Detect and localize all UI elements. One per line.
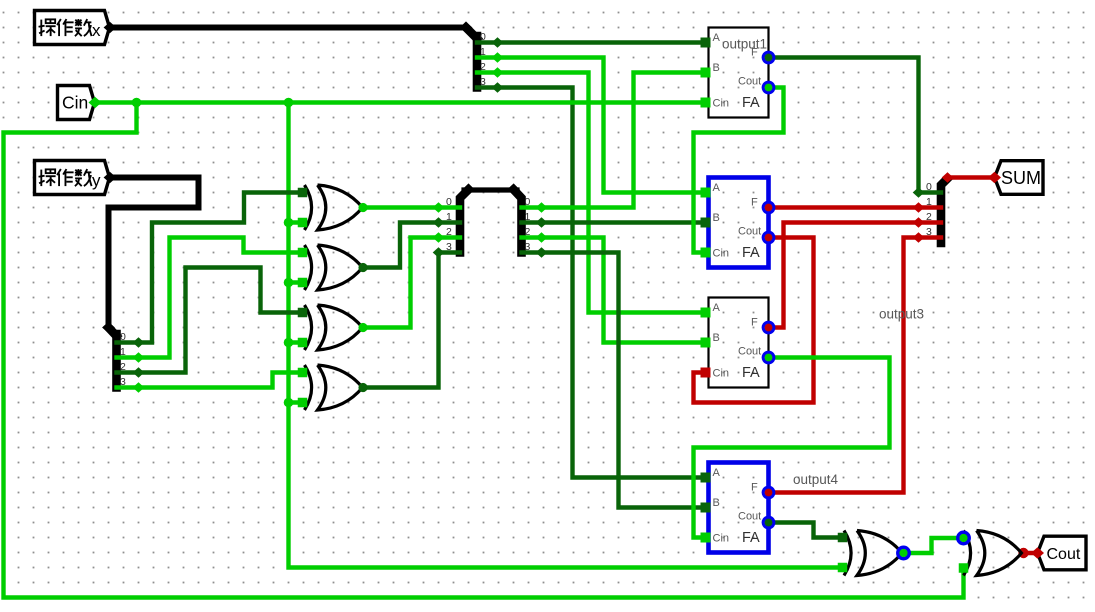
label Cout <box>738 511 761 523</box>
xor gate U2 <box>305 245 363 290</box>
wire y-bus from 操作数y <box>109 178 199 328</box>
label SP1 pin 0 <box>480 31 486 43</box>
label F <box>751 47 758 59</box>
label output4 <box>793 472 839 487</box>
wire y bit1 to xor2 A <box>117 238 301 358</box>
node U2 output <box>358 263 367 272</box>
label A <box>713 467 721 479</box>
pin FA3 Cin <box>701 368 711 378</box>
svg-text:A: A <box>713 32 721 44</box>
label SP4 pin 2 <box>525 226 531 238</box>
svg-text:x: x <box>92 21 101 40</box>
label SUM pin <box>1001 168 1041 188</box>
node SUM pin tip <box>988 172 1001 184</box>
wire yx bit1 to FA2 B <box>522 220 702 224</box>
label F <box>751 197 758 209</box>
wire FA4 Cout to orgate U5 <box>769 523 841 538</box>
node bridge left origin <box>462 184 475 195</box>
node SP4 branch1 <box>536 217 548 227</box>
pin FA4 Cout <box>763 517 774 528</box>
node SP3 branch3 <box>433 247 445 257</box>
junction xor1 B <box>284 218 294 228</box>
svg-text:B: B <box>713 497 720 509</box>
node SP1 branch2 <box>492 67 504 77</box>
svg-text:Cout: Cout <box>1047 546 1081 563</box>
splitter SP5 spine <box>941 179 948 244</box>
label 操 of pin x <box>39 19 56 36</box>
xor gate U1 <box>305 185 363 230</box>
svg-text:A: A <box>713 302 721 314</box>
pin U1 A <box>298 188 308 198</box>
subcircuit FA2 <box>709 178 769 268</box>
node SP5 branch1 <box>913 202 925 212</box>
label B <box>713 212 720 224</box>
svg-text:2: 2 <box>480 61 486 73</box>
svg-text:2: 2 <box>446 226 452 238</box>
svg-text:F: F <box>751 482 758 494</box>
svg-text:A: A <box>713 182 721 194</box>
node y-bus at splitter origin <box>102 322 115 333</box>
pin FA1 Cin <box>701 98 711 108</box>
node SP2 branch0 <box>133 337 145 347</box>
svg-text:1: 1 <box>525 211 531 223</box>
node SP4 branch2 <box>536 232 548 242</box>
svg-text:1: 1 <box>446 211 452 223</box>
node y-bus at pin tip <box>104 172 117 183</box>
svg-text:Cin: Cin <box>62 93 88 113</box>
wire FA2 F to SUM b1 <box>769 205 942 209</box>
node SP2 branch1 <box>133 352 145 362</box>
label SP1 pin 2 <box>480 61 486 73</box>
label SP3 pin 1 <box>446 211 452 223</box>
svg-text:Cin: Cin <box>713 98 730 110</box>
wire FA3 F to SUM b2 <box>769 223 942 328</box>
pin U6 A port <box>958 532 969 543</box>
pin FA3 F <box>763 322 774 333</box>
svg-text:B: B <box>713 212 720 224</box>
input pin 操作数y <box>35 161 110 195</box>
svg-text:2: 2 <box>525 226 531 238</box>
wire xor2 out to SP3 b1 <box>363 223 461 268</box>
svg-text:Cout: Cout <box>738 346 761 358</box>
wire Cin xor column <box>289 103 841 568</box>
svg-text:output4: output4 <box>793 472 839 487</box>
junction xor2 B <box>284 278 294 288</box>
svg-text:3: 3 <box>525 241 531 253</box>
label SP4 pin 0 <box>525 196 531 208</box>
node U6 output <box>1018 548 1028 558</box>
wire stub xor2 B <box>289 280 301 284</box>
pin FA2 F <box>763 202 774 213</box>
svg-text:1: 1 <box>480 46 486 58</box>
label Cout <box>738 346 761 358</box>
label SP5 pin 0 <box>926 181 932 193</box>
svg-text:y: y <box>92 171 101 190</box>
svg-text:Cin: Cin <box>713 368 730 380</box>
svg-text:A: A <box>713 467 721 479</box>
node Cin pin tip <box>89 97 102 109</box>
pin U5 A <box>838 533 848 543</box>
subcircuit FA3 output3 <box>709 298 769 388</box>
svg-text:Cout: Cout <box>738 76 761 88</box>
subcircuit FA4 output4 <box>709 463 769 553</box>
pin U1 B <box>298 218 308 228</box>
pin FA1 Cout <box>763 82 774 93</box>
node bridge right origin <box>507 184 520 195</box>
label output3 <box>879 307 924 322</box>
label 作 of pin x <box>57 19 74 36</box>
node SP3 branch2 <box>433 232 445 242</box>
wire xor-bus bridge <box>464 187 517 192</box>
xor gate U3 <box>305 305 363 350</box>
node x-bus at splitter origin <box>460 22 473 33</box>
pin FA3 Cout <box>763 352 774 363</box>
svg-text:1: 1 <box>120 346 126 358</box>
junction Cin left branch <box>132 98 142 108</box>
label Cin <box>713 368 730 380</box>
label FA <box>742 530 760 546</box>
label output1 <box>722 37 767 52</box>
node Cout pin tip <box>1031 547 1044 559</box>
wire orgate U5 out to xorgate U6 <box>904 538 958 553</box>
label SP1 pin 3 <box>480 76 486 88</box>
label SP3 pin 2 <box>446 226 452 238</box>
wire FA2 Cout to FA3 Cin <box>694 238 814 403</box>
splitter SP2 spine <box>112 334 121 388</box>
node SP2 branch3 <box>133 382 145 392</box>
splitter SP1 spine <box>473 36 482 88</box>
label SP4 pin 3 <box>525 241 531 253</box>
svg-text:FA: FA <box>742 245 760 261</box>
label B <box>713 332 720 344</box>
label F <box>751 317 758 329</box>
svg-text:FA: FA <box>742 530 760 546</box>
input pin 操作数x <box>35 11 110 45</box>
wire xor1 out to SP3 b0 <box>363 205 461 209</box>
svg-text:Cout: Cout <box>738 511 761 523</box>
label x of pin x <box>92 21 101 40</box>
wire Cin left loop to bottom <box>4 103 964 598</box>
pin FA1 B <box>701 68 711 78</box>
pin U5 B <box>838 563 848 573</box>
pin FA2 B <box>701 218 711 228</box>
pin FA3 A <box>701 308 711 318</box>
node SP3 branch1 <box>433 217 445 227</box>
svg-text:3: 3 <box>480 76 486 88</box>
node SP4 branch3 <box>536 247 548 257</box>
label SP1 pin 1 <box>480 46 486 58</box>
wire x bit1 to FA2 A <box>477 58 701 193</box>
node SUM splitter origin <box>942 172 954 182</box>
wire SUM net <box>948 175 995 179</box>
junction Cin xor-column branch <box>284 98 294 108</box>
xor gate U6 <box>964 531 1022 576</box>
label SP3 pin 0 <box>446 196 452 208</box>
label 作 of pin y <box>57 169 74 186</box>
wire yx bit3 to FA4 B <box>522 253 702 508</box>
pin U3 B <box>298 338 308 348</box>
pin FA4 Cin <box>701 533 711 543</box>
node x-bus at pin tip <box>104 22 117 33</box>
wire y bit0 to xor1 A <box>117 193 301 343</box>
junction xor4 B <box>284 398 294 408</box>
svg-text:output1: output1 <box>722 37 767 52</box>
label A <box>713 302 721 314</box>
node SP1 branch3 <box>492 82 504 92</box>
pin FA3 B <box>701 338 711 348</box>
wire xor3 out to SP3 b2 <box>363 238 461 328</box>
label B <box>713 497 720 509</box>
label SP3 pin 3 <box>446 241 452 253</box>
pin FA1 F <box>763 52 774 63</box>
pin U3 A <box>298 308 308 318</box>
wire yx bit2 to FA3 B <box>522 238 702 343</box>
pin FA2 A <box>701 188 711 198</box>
svg-text:0: 0 <box>525 196 531 208</box>
svg-text:B: B <box>713 332 720 344</box>
splitter SP3 spine <box>460 190 469 253</box>
wire x bit2 to FA3 A <box>477 73 701 313</box>
output pin Cout <box>1038 536 1087 570</box>
node U1 output <box>358 203 367 212</box>
junction xor3 B <box>284 338 294 348</box>
label 数 of pin y <box>75 169 92 186</box>
label Cout <box>738 226 761 238</box>
wire x-bus from 操作数x <box>110 25 466 31</box>
node SP5 branch0 <box>913 187 925 197</box>
label SP4 pin 1 <box>525 211 531 223</box>
svg-text:2: 2 <box>120 361 126 373</box>
label A <box>713 182 721 194</box>
label Cin <box>713 98 730 110</box>
node SP4 branch0 <box>536 202 548 212</box>
label 操 of pin y <box>39 169 56 186</box>
label Cin pin <box>62 93 88 113</box>
pin U2 A <box>298 248 308 258</box>
wire xorgate U6 out to Cout pin <box>1024 551 1038 555</box>
label y of pin y <box>92 171 101 190</box>
svg-text:3: 3 <box>446 241 452 253</box>
splitter SP4 spine <box>514 190 522 253</box>
splitter SP1 stem diagonal <box>466 28 477 39</box>
xor gate U4 <box>305 365 363 410</box>
svg-text:output3: output3 <box>879 307 924 322</box>
svg-text:3: 3 <box>926 226 932 238</box>
wire y bit2 to xor3 A <box>117 268 301 373</box>
label Cin <box>713 533 730 545</box>
svg-text:0: 0 <box>926 181 932 193</box>
svg-text:FA: FA <box>742 95 760 111</box>
wire stub xor3 B <box>289 340 301 344</box>
label A <box>713 32 721 44</box>
subcircuit FA1 output1 <box>709 28 769 118</box>
wire FA3 Cout to FA4 Cin <box>694 358 890 538</box>
label Cout pin <box>1047 546 1081 563</box>
node SP2 branch2 <box>133 367 145 377</box>
wire x bit3 to FA4 A <box>477 88 701 478</box>
svg-text:2: 2 <box>926 211 932 223</box>
pin U2 B <box>298 278 308 288</box>
pin FA4 F <box>763 487 774 498</box>
svg-text:Cout: Cout <box>738 226 761 238</box>
svg-text:1: 1 <box>926 196 932 208</box>
wire x bit0 to FA1 A <box>477 40 701 44</box>
label Cin <box>713 248 730 260</box>
node SP3 branch0 <box>433 202 445 212</box>
label FA <box>742 95 760 111</box>
input pin Cin <box>58 86 95 120</box>
node SP5 branch3 <box>913 232 925 242</box>
label SP2 pin 2 <box>120 361 126 373</box>
wire FA1 Cout to FA2 Cin <box>694 88 784 253</box>
pin FA1 A <box>701 38 711 48</box>
svg-text:0: 0 <box>446 196 452 208</box>
wire Cin main run to FA1 Cin <box>95 100 701 104</box>
svg-text:F: F <box>751 197 758 209</box>
label Cout <box>738 76 761 88</box>
svg-text:0: 0 <box>480 31 486 43</box>
label SP5 pin 2 <box>926 211 932 223</box>
node SP5 branch2 <box>913 217 925 227</box>
label SP5 pin 3 <box>926 226 932 238</box>
wire stub xor4 B <box>289 400 301 404</box>
label SP2 pin 0 <box>120 331 126 343</box>
wire FA4 F to SUM b3 <box>769 238 942 493</box>
node U5 output port <box>898 547 909 558</box>
node SP1 branch0 <box>492 37 504 47</box>
label B <box>713 62 720 74</box>
output pin SUM <box>995 161 1044 195</box>
wire y bit3 to xor4 A <box>117 373 301 388</box>
pin FA4 B <box>701 503 711 513</box>
label SP2 pin 1 <box>120 346 126 358</box>
svg-text:0: 0 <box>120 331 126 343</box>
label FA <box>742 245 760 261</box>
splitter SP2 stem diagonal <box>109 328 117 337</box>
wire yx bit0 to FA1 B <box>522 73 702 208</box>
pin U4 B <box>298 398 308 408</box>
wire stub xor1 B <box>289 220 301 224</box>
svg-text:Cin: Cin <box>713 248 730 260</box>
svg-text:FA: FA <box>742 365 760 381</box>
pin FA2 Cout <box>763 232 774 243</box>
pin U6 B <box>959 563 969 573</box>
xor gate U5 <box>844 531 902 576</box>
label F <box>751 482 758 494</box>
node U4 output <box>358 383 367 392</box>
svg-text:SUM: SUM <box>1001 168 1041 188</box>
svg-text:B: B <box>713 62 720 74</box>
wire xor4 out to SP3 b3 <box>363 253 461 388</box>
wire FA1 F to SUM b0 <box>769 58 942 193</box>
svg-text:F: F <box>751 317 758 329</box>
label FA <box>742 365 760 381</box>
node SP1 branch1 <box>492 52 504 62</box>
label SP2 pin 3 <box>120 376 126 388</box>
label SP5 pin 1 <box>926 196 932 208</box>
pin FA4 A <box>701 473 711 483</box>
svg-text:Cin: Cin <box>713 533 730 545</box>
pin FA2 Cin <box>701 248 711 258</box>
svg-text:3: 3 <box>120 376 126 388</box>
pin U4 A <box>298 368 308 378</box>
label 数 of pin x <box>75 19 92 36</box>
node U3 output <box>358 323 367 332</box>
